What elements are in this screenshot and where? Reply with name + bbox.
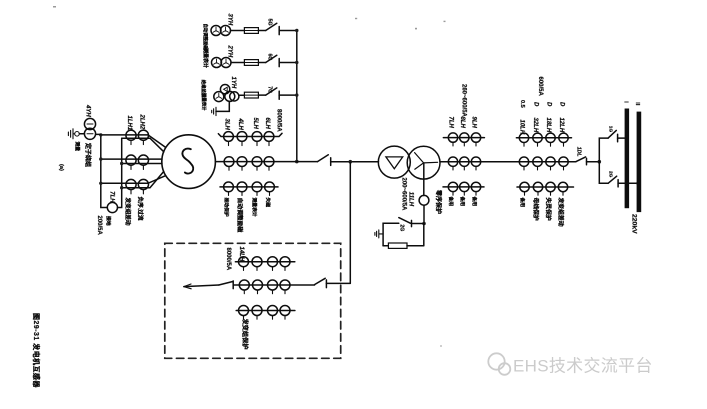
wire 4YH to phase1	[96, 133, 101, 135]
current transformer 9LH	[471, 133, 480, 142]
wire box to main line tap	[326, 162, 350, 283]
disconnect switch 2G busbar	[608, 176, 618, 187]
ground symbol neutral	[375, 230, 383, 238]
ground symbol left of 4YH	[68, 129, 74, 139]
svg-text:II: II	[634, 102, 640, 106]
svg-text:200/5A: 200/5A	[96, 216, 102, 236]
voltage transformer 2YH	[212, 58, 232, 68]
svg-text:D: D	[545, 102, 551, 107]
svg-text:8000/5A: 8000/5A	[225, 248, 231, 271]
wire neutral right vertical	[118, 138, 122, 207]
wire neutral to junction	[423, 205, 425, 223]
wire 2G to ground leg	[383, 223, 399, 246]
CT row 10LH-12LH line	[516, 137, 571, 139]
current transformer 7LH2	[448, 133, 457, 142]
CT row3 mid block line	[443, 186, 484, 188]
wire phase1 upper	[101, 135, 166, 148]
circuit breaker 1DL	[576, 157, 587, 165]
svg-text:10LH: 10LH	[518, 120, 524, 135]
svg-text:EHS技术交流平台: EHS技术交流平台	[513, 357, 653, 376]
switch left in box	[219, 281, 233, 289]
svg-text:32LH: 32LH	[532, 118, 538, 133]
wire phase3 upper	[101, 176, 166, 184]
svg-text:14LH: 14LH	[238, 247, 244, 262]
current transformer 5LH	[252, 132, 262, 142]
CT row 3LH-6LH line	[218, 133, 282, 136]
svg-text:220kV: 220kV	[630, 214, 637, 234]
wire 1G to busbar I	[618, 137, 625, 139]
svg-text:接地: 接地	[105, 216, 112, 226]
svg-text:200~600/5A: 200~600/5A	[401, 178, 407, 212]
wire 4YH left lead	[79, 133, 84, 135]
wire breaker to transformer	[331, 161, 379, 163]
svg-text:1LH1: 1LH1	[126, 116, 132, 131]
svg-text:失灵保护: 失灵保护	[545, 198, 553, 221]
CT row C in box line	[236, 310, 295, 312]
svg-text:负序.过流: 负序.过流	[136, 197, 144, 221]
wire 3YH to fuse	[231, 30, 245, 32]
svg-text:自动调整励磁: 自动调整励磁	[202, 24, 209, 51]
svg-text:18LH: 18LH	[545, 118, 551, 133]
svg-text:发变组保护: 发变组保护	[241, 318, 249, 350]
generator G	[162, 135, 216, 189]
svg-text:母线保护: 母线保护	[532, 198, 540, 221]
wire neutral left vertical	[101, 135, 108, 208]
CT row A in box line	[235, 261, 294, 263]
wire to 2G branch	[599, 162, 608, 184]
main transformer star winding	[407, 146, 440, 179]
svg-text:1YH: 1YH	[230, 77, 236, 89]
text labels (rotated 90deg like the scanned original)	[85, 14, 641, 271]
disconnect switch 6G	[266, 55, 280, 66]
current transformer pair phase2	[126, 155, 136, 165]
wire switch to bus	[279, 62, 297, 64]
svg-text:(a): (a)	[58, 164, 64, 171]
wire phase2 lower	[122, 163, 162, 165]
svg-text:9LH: 9LH	[470, 117, 476, 129]
CT row B in box with switches	[184, 285, 219, 287]
main transformer delta winding	[378, 146, 410, 178]
svg-text:600/5A: 600/5A	[537, 77, 543, 97]
svg-text:备用: 备用	[459, 196, 466, 207]
wire transformer neutral down	[423, 163, 425, 196]
node tap to unit aux box	[349, 160, 353, 164]
svg-text:260~600/5A: 260~600/5A	[461, 84, 467, 118]
wire to 1G branch	[599, 138, 608, 162]
svg-text:发变组差动: 发变组差动	[124, 197, 132, 226]
current transformer 7LH	[107, 202, 117, 212]
svg-text:11LH: 11LH	[408, 192, 414, 207]
svg-text:备用: 备用	[519, 197, 526, 208]
CT row 7LH-9LH line	[443, 137, 484, 139]
wire phase2 upper	[101, 158, 162, 160]
svg-text:1DL: 1DL	[575, 147, 581, 157]
svg-text:备用: 备用	[471, 196, 478, 207]
svg-text:7G: 7G	[266, 86, 272, 93]
svg-text:D: D	[532, 102, 538, 107]
svg-text:12LH: 12LH	[558, 118, 564, 133]
svg-text:8000/5A: 8000/5A	[276, 109, 282, 132]
disconnect switch 5G	[266, 23, 280, 34]
wire fuse to switch	[258, 94, 265, 96]
svg-text:7LH: 7LH	[109, 191, 115, 203]
fuse branch2	[244, 60, 258, 66]
wire 1YH neutral to ground	[216, 102, 229, 112]
current transformer 8LH	[460, 133, 469, 142]
svg-text:4LH: 4LH	[237, 118, 243, 131]
fuse branch1	[244, 28, 258, 34]
node junctions left	[99, 133, 123, 189]
svg-text:2LH2: 2LH2	[138, 114, 144, 130]
svg-text:2YH: 2YH	[227, 45, 233, 58]
vertical bus of YH branches	[296, 31, 298, 162]
svg-text:失磁: 失磁	[265, 198, 272, 208]
svg-text:测量表计: 测量表计	[202, 48, 209, 68]
fuse branch3	[244, 92, 258, 98]
wire fuse to switch	[258, 62, 265, 64]
wire fuse to switch	[258, 30, 265, 32]
svg-text:I: I	[622, 101, 628, 103]
voltage transformer 4YH	[84, 118, 95, 139]
svg-text:测量表计: 测量表计	[251, 198, 258, 217]
current transformer 6LH	[264, 132, 274, 142]
wire switch to bus	[279, 94, 297, 96]
disconnect switch 1G	[608, 130, 618, 141]
wire switch to bus	[279, 30, 297, 32]
disconnect switch 2G neutral	[399, 218, 424, 227]
voltage transformer 1YH three-winding	[214, 85, 239, 102]
current transformer pair phase3	[126, 179, 136, 189]
svg-text:5G: 5G	[266, 19, 272, 26]
svg-text:4YH: 4YH	[85, 104, 91, 117]
CT row3 right block line	[517, 186, 574, 188]
switch right in box	[315, 278, 327, 287]
node dots on bus	[295, 29, 299, 164]
CT row2 mid block	[448, 157, 457, 166]
wire 1YH to fuse	[239, 94, 245, 96]
current transformers row3	[224, 182, 234, 192]
dashed box unit protection CT group	[165, 243, 341, 358]
wire resistor loop	[383, 224, 424, 246]
arrow head left	[184, 284, 191, 289]
busbar II	[637, 112, 642, 213]
wire phase3 lower	[122, 171, 164, 187]
main line transformer to 1DL	[440, 161, 576, 163]
svg-text:2G: 2G	[398, 224, 404, 231]
generator breaker switch	[318, 155, 331, 166]
CT row3 line below main	[220, 186, 278, 188]
current transformer 4LH	[237, 132, 247, 142]
instrument circle left of 4YH	[75, 132, 80, 137]
svg-text:8LH: 8LH	[459, 117, 465, 129]
svg-text:定子绕组: 定子绕组	[84, 142, 92, 167]
wire 2G to busbar II	[618, 182, 637, 184]
svg-text:6LH: 6LH	[264, 118, 270, 130]
svg-text:2G: 2G	[607, 171, 613, 178]
voltage transformer 3YH	[211, 26, 231, 36]
svg-text:1G: 1G	[607, 126, 613, 133]
current transformer 3LH	[224, 132, 234, 142]
svg-text:测量表计: 测量表计	[200, 93, 207, 111]
svg-text:图29-31 发电机互感器: 图29-31 发电机互感器	[32, 313, 41, 388]
svg-text:零序保护: 零序保护	[434, 189, 442, 214]
svg-text:3YH: 3YH	[227, 14, 233, 26]
svg-text:7LH: 7LH	[447, 117, 453, 129]
row B line and CTs	[233, 284, 314, 286]
ground symbol 1YH	[212, 107, 216, 115]
svg-text:备用: 备用	[447, 196, 454, 207]
wire 1DL to junction	[587, 161, 600, 163]
busbar I	[625, 109, 630, 209]
disconnect switch 7G	[266, 88, 280, 99]
watermark EHS logo	[488, 353, 510, 375]
main line generator to transformer	[215, 161, 317, 163]
svg-text:差动保护: 差动保护	[223, 198, 230, 217]
scan specks	[53, 6, 446, 347]
svg-text:3LH: 3LH	[223, 119, 229, 131]
svg-text:发变组差动: 发变组差动	[557, 197, 565, 227]
svg-text:自动调整励磁: 自动调整励磁	[236, 198, 244, 233]
svg-text:5LH: 5LH	[252, 118, 258, 130]
wire 2YH to fuse	[231, 62, 244, 64]
current transformer 1LH phase1 pair	[126, 130, 136, 140]
svg-text:6G: 6G	[266, 54, 272, 61]
svg-text:测量: 测量	[74, 142, 81, 152]
CT row2 right block on main line	[519, 157, 528, 166]
svg-text:D: D	[558, 102, 564, 107]
svg-text:0.5: 0.5	[519, 100, 525, 108]
resistor neutral grounding	[388, 243, 407, 248]
CT row2 on main line (measuring set)	[224, 157, 234, 167]
wire phase1 lower	[122, 138, 164, 152]
current transformer 11LH neutral	[419, 195, 429, 205]
